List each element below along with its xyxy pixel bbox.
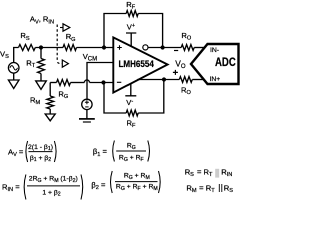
svg-text:RG + RF + RM: RG + RF + RM <box>116 184 158 192</box>
svg-text:RO: RO <box>181 86 191 97</box>
svg-text:RS: RS <box>224 183 233 194</box>
svg-text:V-: V- <box>126 98 133 107</box>
svg-text:2(1 - β1): 2(1 - β1) <box>28 144 53 152</box>
source VCM <box>82 52 114 110</box>
resistor RT <box>26 48 44 81</box>
formula beta1 <box>93 141 150 164</box>
svg-text:RM: RM <box>30 95 40 106</box>
wire amp -output <box>137 79 179 81</box>
svg-text:AV, RIN: AV, RIN <box>30 15 54 26</box>
svg-text:RG: RG <box>58 89 68 100</box>
wire RO to ADC IN+ <box>192 79 204 81</box>
resistor RS <box>19 31 36 50</box>
svg-text:RIN =: RIN = <box>2 183 20 194</box>
probe marker AV, RIN <box>30 15 70 67</box>
svg-text:V+: V+ <box>127 23 135 32</box>
svg-text:RF: RF <box>127 118 136 129</box>
ground (RM) <box>45 114 55 121</box>
ground (RT) <box>36 81 47 90</box>
svg-text:ADC: ADC <box>215 55 236 69</box>
svg-text:RO: RO <box>181 31 191 42</box>
svg-text:RM = RT: RM = RT <box>186 183 215 194</box>
formula AV <box>8 141 56 163</box>
formula RM matching <box>186 183 233 194</box>
svg-text:RT: RT <box>26 58 35 69</box>
resistor RG (upper) <box>63 32 77 50</box>
wire RS to RG <box>35 47 63 49</box>
op-amp U1 LMH6554 <box>113 37 167 92</box>
svg-text:1 + β2: 1 + β2 <box>42 189 60 197</box>
formula RS matching <box>185 168 233 179</box>
svg-text:RIN: RIN <box>221 168 232 179</box>
wire RO to ADC IN- <box>194 47 204 49</box>
node -input/RF junction <box>101 80 105 84</box>
svg-text:VO: VO <box>175 58 186 70</box>
svg-text:β1 =: β1 = <box>93 147 108 158</box>
node output/RF top <box>161 45 165 49</box>
wire RG to amp +input <box>77 47 114 49</box>
node output/RF bottom <box>162 77 166 81</box>
svg-text:RG + RF: RG + RF <box>119 155 144 163</box>
svg-text:LMH6554: LMH6554 <box>119 59 154 69</box>
node RS/RT junction <box>39 45 43 49</box>
supply V- <box>125 84 136 107</box>
svg-text:IN+: IN+ <box>210 76 221 83</box>
svg-text:β1 + β2: β1 + β2 <box>30 155 51 163</box>
node +input/RF junction <box>102 45 106 49</box>
ground (VS) <box>8 80 19 89</box>
supply V+ <box>126 23 136 47</box>
formula RIN <box>2 175 83 200</box>
wire VS top <box>14 48 19 63</box>
svg-text:VCM: VCM <box>83 52 97 63</box>
output bubble (inverting) <box>143 45 148 50</box>
wire RG to amp -input (hop over VCM) <box>71 80 114 83</box>
ground (VCM) <box>79 110 95 122</box>
formula beta2 <box>91 171 160 193</box>
resistor RM <box>30 83 54 115</box>
svg-text:2RG + RM (1-β2): 2RG + RM (1-β2) <box>29 176 78 184</box>
svg-text:β2 =: β2 = <box>91 180 106 191</box>
svg-text:AV =: AV = <box>8 148 24 159</box>
svg-text:RS: RS <box>20 31 29 42</box>
resistor RG (lower) <box>50 80 70 101</box>
wire VS bottom <box>13 73 15 80</box>
svg-text:RF: RF <box>126 0 135 11</box>
wire bubble to RO top <box>148 47 181 49</box>
svg-text:RG + RM: RG + RM <box>124 173 150 181</box>
svg-text:RG: RG <box>127 143 136 151</box>
resistor RF (bottom) <box>104 80 164 129</box>
resistor RF (top) <box>104 0 163 47</box>
svg-text:VS: VS <box>0 49 9 60</box>
svg-text:RS = RT: RS = RT <box>185 168 213 179</box>
svg-text:IN-: IN- <box>210 47 219 54</box>
resistor RO (top) <box>181 31 194 50</box>
ADC U2 <box>191 44 239 84</box>
label VO with polarity <box>173 51 186 75</box>
resistor RO (bottom) <box>179 77 192 97</box>
source VS <box>0 49 19 73</box>
svg-text:RG: RG <box>66 32 76 43</box>
